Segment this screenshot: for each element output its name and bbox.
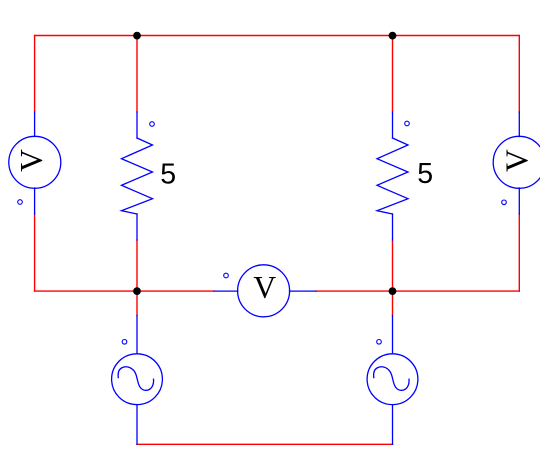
pin stub resistor R2 bottom	[392, 214, 394, 240]
junction node dot middle-right	[389, 287, 397, 295]
pin stub voltmeter XMM3 bottom	[518, 188, 520, 214]
pin stub resistor R1 top	[136, 112, 138, 138]
pin stub voltmeter XMM2 left	[214, 290, 238, 292]
wire bottom horizontal net	[137, 443, 393, 445]
svg-text:5: 5	[417, 158, 433, 190]
junction node dot top-left	[133, 32, 141, 40]
AC source V1 sine symbol	[118, 367, 153, 391]
resistor R1 zigzag body	[122, 138, 153, 214]
resistor R2 zigzag body	[377, 138, 408, 214]
wire branch2 middle (R2 to node)	[392, 240, 394, 316]
terminal marker o at R1	[150, 122, 155, 127]
svg-text:V: V	[499, 149, 534, 172]
pin stub resistor R1 bottom	[136, 214, 138, 240]
AC source V2 circle (right)	[367, 354, 418, 405]
wire middle horizontal left segment	[35, 290, 214, 292]
pin stub voltmeter XMM3 top	[518, 112, 520, 137]
svg-text:V: V	[14, 149, 49, 172]
wire right vertical upper	[518, 36, 520, 113]
wire top horizontal net	[35, 35, 520, 37]
voltmeter XMM1 circle (left)	[9, 136, 61, 188]
voltmeter XMM2 circle (middle)	[238, 265, 290, 317]
terminal marker o at V1	[122, 340, 127, 345]
svg-text:5: 5	[160, 159, 176, 191]
wire right vertical lower	[518, 214, 520, 291]
pin stub resistor R2 top	[392, 112, 394, 138]
svg-text:V: V	[253, 270, 276, 305]
pin stub source V1 bottom	[136, 405, 138, 445]
wire branch2 top (node to R2)	[392, 36, 394, 113]
pin stub source V2 top	[392, 316, 394, 354]
terminal marker o at XMM3	[502, 200, 507, 205]
wire branch1 middle (R1 to node)	[136, 240, 138, 316]
wire left vertical upper	[34, 36, 36, 113]
terminal marker o at R2	[405, 121, 410, 126]
terminal marker o at XMM1	[18, 200, 23, 205]
pin stub voltmeter XMM1 bottom	[34, 188, 36, 214]
pin stub source V2 bottom	[392, 405, 394, 445]
terminal marker o at XMM2	[224, 273, 229, 278]
wire branch1 top (node to R1)	[136, 36, 138, 113]
pin stub source V1 top	[136, 316, 138, 354]
pin stub voltmeter XMM2 right	[290, 290, 317, 292]
junction node dot middle-left	[133, 287, 141, 295]
junction node dot top-right	[389, 32, 397, 40]
pin stub voltmeter XMM1 top	[34, 112, 36, 137]
voltmeter XMM3 circle (right)	[493, 136, 540, 188]
wire middle horizontal right segment	[316, 290, 519, 292]
AC source V1 circle (left)	[112, 354, 163, 405]
wire left vertical lower	[34, 214, 36, 291]
AC source V2 sine symbol	[374, 367, 409, 391]
terminal marker o at V2	[377, 340, 382, 345]
